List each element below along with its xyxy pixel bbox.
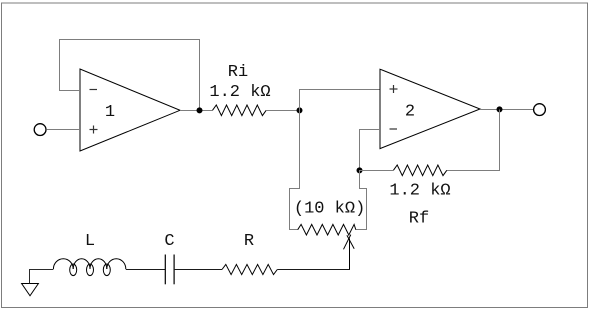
svg-text:Ri: Ri bbox=[228, 63, 248, 82]
wire potentiometer right step bbox=[356, 170, 367, 230]
wire U2 minus down to node B bbox=[359, 130, 361, 171]
input terminal bbox=[34, 124, 46, 136]
wire input terminal to U1 plus input bbox=[46, 129, 80, 131]
op-amp U1 minus input label bbox=[90, 89, 98, 91]
svg-text:1.2 kΩ: 1.2 kΩ bbox=[209, 83, 270, 102]
wire Ri to node A bbox=[266, 110, 299, 112]
wire node A down to potentiometer bbox=[299, 110, 301, 189]
node U1 output junction bbox=[197, 107, 203, 113]
wire U1 feedback top bbox=[59, 39, 200, 41]
op-amp U2 bbox=[380, 69, 480, 148]
svg-text:2: 2 bbox=[405, 103, 415, 122]
resistor Ri bbox=[213, 105, 267, 116]
node B junction bbox=[357, 167, 363, 173]
wire potentiometer left step bbox=[290, 188, 300, 230]
svg-text:(10 kΩ): (10 kΩ) bbox=[294, 200, 365, 219]
wire R to wiper bbox=[277, 269, 350, 271]
svg-text:C: C bbox=[164, 232, 174, 251]
wire U2 minus input bbox=[359, 129, 380, 131]
svg-text:1: 1 bbox=[105, 103, 115, 122]
inductor L bbox=[53, 259, 125, 276]
wire Rf left to node B bbox=[360, 170, 394, 172]
wire U1 feedback vertical right bbox=[199, 39, 201, 111]
wire ground stub bbox=[29, 270, 31, 284]
node A junction bbox=[297, 107, 303, 113]
resistor Rf bbox=[393, 165, 446, 176]
output terminal bbox=[534, 104, 546, 116]
wire U1 output bbox=[180, 110, 213, 112]
svg-text:R: R bbox=[244, 232, 254, 251]
ground bbox=[22, 284, 39, 296]
op-amp U1 plus input label bbox=[90, 126, 98, 134]
node U2 output junction bbox=[497, 106, 503, 112]
wire U1 feedback vertical left bbox=[59, 39, 61, 91]
wire L to C bbox=[126, 269, 166, 271]
op-amp U1 bbox=[80, 69, 180, 151]
svg-text:1.2 kΩ: 1.2 kΩ bbox=[389, 182, 450, 201]
wire node A up bbox=[299, 89, 301, 111]
svg-text:L: L bbox=[85, 232, 95, 251]
wire U1 feedback to minus input bbox=[59, 90, 80, 92]
wire U2 output down bbox=[499, 110, 501, 172]
wire ground to L bbox=[29, 269, 53, 271]
capacitor C bbox=[165, 255, 174, 285]
op-amp U2 minus input label bbox=[390, 128, 398, 130]
svg-text:Rf: Rf bbox=[409, 210, 429, 229]
resistor R bbox=[222, 264, 277, 274]
op-amp U2 plus input label bbox=[390, 85, 398, 93]
potentiometer wiper arrow bbox=[344, 235, 355, 270]
wire to U2 plus input bbox=[299, 89, 380, 91]
potentiometer P1 resistor body bbox=[298, 224, 356, 235]
wire U2 output bbox=[480, 109, 534, 111]
wire C to R bbox=[174, 269, 222, 271]
wire Rf right bbox=[447, 170, 500, 172]
